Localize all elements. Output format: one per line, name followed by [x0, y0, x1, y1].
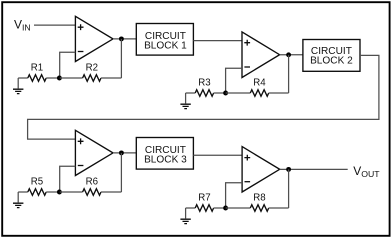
resistor R7	[195, 205, 213, 212]
wire U2 inverting input	[226, 68, 242, 93]
wire Circuit Block 2 output to stage 3 (right drop, long run, left drop)	[28, 55, 379, 139]
node C junction R5/R6	[57, 190, 62, 195]
svg-text:R5: R5	[31, 177, 43, 188]
node U4 output junction	[286, 167, 291, 172]
op-amp U1	[75, 16, 113, 61]
wire GND1 to R1	[18, 77, 28, 79]
wire U3 output feedback drop	[120, 153, 122, 192]
node U3 output junction	[119, 150, 124, 155]
wire U4 output feedback drop	[288, 169, 290, 208]
wire VIN to U1 noninverting input	[34, 24, 75, 26]
svg-text:R6: R6	[86, 177, 98, 188]
op-amp U3	[75, 130, 113, 175]
svg-text:BLOCK 3: BLOCK 3	[144, 155, 187, 166]
wire U4 output to VOUT	[280, 168, 348, 170]
node VOUT label	[353, 164, 380, 179]
svg-text:R1: R1	[31, 63, 43, 74]
node A junction R1/R2	[57, 76, 62, 81]
block CIRCUIT BLOCK 2	[303, 40, 360, 72]
wire node D to R8	[226, 207, 251, 209]
node U2 output junction	[286, 52, 291, 57]
svg-text:R7: R7	[198, 193, 210, 204]
ground GND2	[180, 93, 190, 109]
wire R3 to node B	[214, 92, 226, 94]
wire R5 to node C	[46, 191, 60, 193]
ground GND4	[180, 208, 190, 224]
svg-text:IN: IN	[22, 22, 31, 32]
wire U2 output feedback drop	[288, 55, 290, 93]
wire R2 to U1 output node	[101, 77, 121, 79]
ground GND1	[13, 78, 23, 94]
wire node A to R2	[60, 77, 83, 79]
svg-text:OUT: OUT	[361, 169, 380, 179]
node U1 output junction	[119, 36, 124, 41]
node B junction R3/R4	[223, 91, 228, 96]
svg-text:R3: R3	[198, 78, 210, 89]
svg-text:BLOCK 1: BLOCK 1	[144, 41, 187, 52]
op-amp U2	[242, 32, 280, 78]
svg-text:R4: R4	[253, 78, 266, 89]
wire GND4 to R7	[186, 207, 196, 209]
node D junction R7/R8	[223, 206, 228, 211]
wire GND3 to R5	[18, 191, 28, 193]
svg-text:V: V	[14, 17, 22, 31]
svg-text:BLOCK 2: BLOCK 2	[310, 56, 353, 67]
wire U2 output to Circuit Block 2	[280, 54, 303, 56]
resistor R8	[250, 205, 268, 212]
wire U1 inverting input	[60, 52, 76, 78]
wire R4 to U2 output node	[269, 92, 289, 94]
op-amp U4	[242, 147, 280, 192]
wire R7 to node D	[214, 207, 226, 209]
svg-text:R8: R8	[253, 193, 265, 204]
resistor R4	[250, 90, 268, 97]
wire Circuit Block 3 to U4 noninverting input	[193, 154, 242, 156]
wire R8 to U4 output node	[269, 207, 289, 209]
wire U3 inverting input	[60, 166, 76, 192]
wire node C to R6	[60, 191, 83, 193]
resistor R5	[28, 189, 46, 196]
resistor R1	[28, 75, 46, 82]
wire U1 output to Circuit Block 1	[113, 38, 136, 40]
block CIRCUIT BLOCK 1	[136, 24, 193, 56]
resistor R2	[83, 75, 101, 82]
wire GND2 to R3	[186, 92, 196, 94]
wire R6 to U3 output node	[101, 191, 121, 193]
wire R1 to node A	[46, 77, 60, 79]
block CIRCUIT BLOCK 3	[136, 138, 193, 170]
wire Circuit Block 1 to U2 noninverting input	[193, 40, 242, 42]
svg-text:R2: R2	[86, 63, 98, 74]
wire node B to R4	[226, 92, 251, 94]
wire U4 inverting input	[226, 183, 243, 208]
wire U3 output to Circuit Block 3	[113, 152, 136, 154]
resistor R6	[83, 189, 101, 196]
ground GND3	[13, 192, 23, 208]
wire U1 output feedback drop	[120, 39, 122, 78]
resistor R3	[195, 90, 213, 97]
node VIN label	[14, 17, 31, 32]
svg-text:V: V	[353, 164, 361, 178]
